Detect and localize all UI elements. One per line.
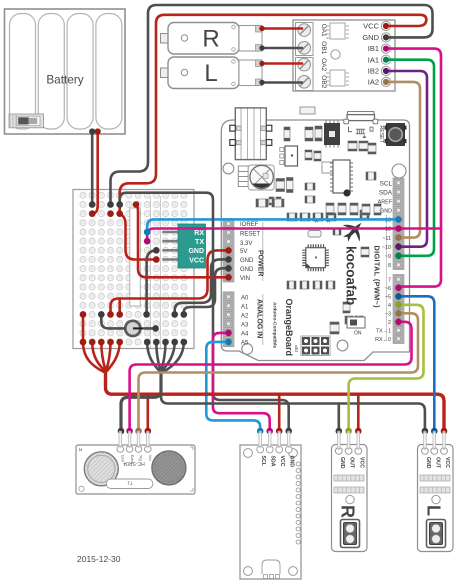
small SMD parts top xyxy=(284,107,376,154)
driver pin IA2 xyxy=(381,77,390,86)
svg-text:GND: GND xyxy=(380,208,392,214)
svg-text:R: R xyxy=(338,505,358,518)
ON switch xyxy=(347,317,365,328)
svg-text:HC-SR04: HC-SR04 xyxy=(123,460,145,466)
lime wire junction dots xyxy=(345,302,402,435)
flash IC U5 xyxy=(324,123,340,145)
wire blue OUT L (pin5 to sensorL) xyxy=(399,296,435,431)
mounting hole xyxy=(331,50,340,59)
power switch SW1 xyxy=(9,114,44,128)
wire long gray (breadboard to gyro GND) xyxy=(120,193,289,431)
driver IC1 xyxy=(326,23,349,39)
svg-text:T1: T1 xyxy=(127,481,133,486)
svg-text:POWER: POWER xyxy=(257,250,264,276)
wire VIN red (arduino VIN to breadboard) xyxy=(136,205,228,277)
red wire junction dots xyxy=(80,23,448,434)
svg-text:VCC: VCC xyxy=(444,457,450,468)
big electrolytic cap C2 xyxy=(248,165,274,190)
wire gray fan (breadboard to GND bus) xyxy=(147,342,159,371)
driver pin GND xyxy=(381,33,390,42)
svg-text:TX→1: TX→1 xyxy=(376,329,391,335)
svg-text:ON: ON xyxy=(354,331,362,337)
wire red fan (breadboard to VCC bus) xyxy=(82,314,85,342)
wire magenta Echo (pin2 to sonar) xyxy=(130,322,412,431)
IR sensor L xyxy=(418,445,454,552)
wire BT GND gray (breadboard to lower row) xyxy=(147,250,157,314)
driver pin VCC xyxy=(381,21,390,30)
svg-text:VCC: VCC xyxy=(363,22,379,31)
svg-text:GND: GND xyxy=(188,248,204,255)
wire VCC rail red (driver VCC to breadboard) xyxy=(120,15,427,214)
svg-text:~5: ~5 xyxy=(385,295,391,301)
svg-text:VCC: VCC xyxy=(279,456,285,467)
wire GND1 gray (arduino GND to breadboard) xyxy=(175,259,229,314)
svg-text:~6: ~6 xyxy=(385,286,391,292)
svg-text:OUT: OUT xyxy=(434,457,440,469)
svg-text:Battery: Battery xyxy=(46,73,83,87)
svg-text:GND: GND xyxy=(362,33,379,42)
svg-text:IA1: IA1 xyxy=(368,55,379,64)
svg-text:TX: TX xyxy=(195,239,204,246)
right header lower xyxy=(393,275,404,344)
breadboard (perfboard) xyxy=(73,190,194,349)
deep blue wire junction dots xyxy=(395,293,437,434)
electrolytic cap C1 (round component on breadboard) xyxy=(125,321,144,336)
right header upper xyxy=(393,178,404,270)
crystal Y1 xyxy=(322,162,333,173)
wire BT RX blue (pin13 to breadboard) xyxy=(147,219,398,232)
svg-text:GND: GND xyxy=(425,457,431,469)
bluetooth module U4 xyxy=(164,224,206,268)
wire red drop sensorR VCC xyxy=(357,394,360,431)
svg-text:IB1: IB1 xyxy=(368,44,379,53)
svg-text:OA1: OA1 xyxy=(320,24,327,37)
left header POWER xyxy=(223,219,234,283)
wire buzzer left gray xyxy=(101,314,125,328)
motor R xyxy=(161,23,263,55)
wire IA2 brown (driver to pin11) xyxy=(386,82,420,238)
gray wire junction dots xyxy=(89,34,428,434)
svg-text:OrangeBoard: OrangeBoard xyxy=(284,299,294,357)
wire motor L + red xyxy=(262,62,302,65)
svg-text:GND: GND xyxy=(339,457,345,469)
svg-text:VCC: VCC xyxy=(189,257,204,264)
wire gray GND bus to sonar xyxy=(121,368,161,431)
svg-text:L: L xyxy=(424,505,444,516)
wire buzzer right gray xyxy=(145,327,154,330)
svg-text:SDA: SDA xyxy=(270,456,276,467)
svg-text:GND: GND xyxy=(289,456,295,468)
magenta wire junction dots xyxy=(126,46,402,435)
smd caps row above bird xyxy=(326,203,381,215)
svg-text:RX←0: RX←0 xyxy=(375,337,391,343)
svg-text:RESET: RESET xyxy=(378,126,384,144)
svg-text:GND: GND xyxy=(240,267,254,273)
svg-text:2: 2 xyxy=(388,320,391,326)
svg-text:4: 4 xyxy=(388,303,391,309)
mounting holes xyxy=(242,344,253,355)
wire red drop gyro VCC xyxy=(278,394,281,431)
IR sensor R xyxy=(332,445,368,552)
svg-text:SDA: SDA xyxy=(379,190,393,197)
wire battery GND gray xyxy=(91,132,94,205)
svg-text:OB1: OB1 xyxy=(320,41,327,54)
battery holder BT1 xyxy=(5,9,126,134)
svg-text:A3: A3 xyxy=(241,323,249,329)
MCU U8 xyxy=(302,244,329,271)
terminal block OA2/OB2 xyxy=(296,58,314,91)
svg-text:IA2: IA2 xyxy=(368,78,379,87)
wire red VCC bus to modules xyxy=(106,368,445,431)
wire end dots xyxy=(80,23,448,434)
right pin labels xyxy=(379,181,393,197)
svg-text:~10: ~10 xyxy=(382,245,391,251)
svg-text:A4: A4 xyxy=(241,332,249,338)
small ICs near regulator xyxy=(269,178,293,206)
svg-text:SCL: SCL xyxy=(260,456,266,467)
svg-text:A0: A0 xyxy=(241,296,249,302)
svg-text:ANALOG IN: ANALOG IN xyxy=(256,299,263,338)
Arduino OrangeBoard xyxy=(221,107,409,361)
wire 5V red (arduino 5V to breadboard) xyxy=(111,250,229,314)
svg-text:3.3V: 3.3V xyxy=(240,241,252,247)
voltage regulator U6 xyxy=(280,146,298,166)
brown wire junction dots xyxy=(135,79,402,435)
svg-text:IOREF: IOREF xyxy=(240,222,259,228)
svg-text:OUT: OUT xyxy=(349,457,355,469)
motor driver board U3 xyxy=(293,20,395,91)
svg-text:2015-12-30: 2015-12-30 xyxy=(77,554,121,564)
wire gray drop sensorR GND xyxy=(337,404,340,432)
purple wire junction dots xyxy=(383,68,402,250)
svg-text:AREF: AREF xyxy=(378,199,393,205)
svg-text:RESET: RESET xyxy=(240,232,260,238)
wire lime OUT R (pin4 to sensorR) xyxy=(349,305,424,431)
svg-text:A2: A2 xyxy=(241,314,249,320)
USB connector J2 xyxy=(344,112,378,138)
power jack J1 xyxy=(230,108,272,160)
terminal block OA1/OB1 xyxy=(296,23,314,56)
reset button SW2 xyxy=(378,124,407,146)
slot cutout xyxy=(130,208,141,306)
svg-text:IB2: IB2 xyxy=(368,67,379,76)
gyro module U9 xyxy=(240,445,301,579)
wire IA1 green (driver to pin9) xyxy=(386,60,434,256)
svg-text:Vcc: Vcc xyxy=(148,455,152,461)
svg-text:RX: RX xyxy=(194,230,204,237)
side cap C3 xyxy=(238,166,248,187)
svg-text:kocoafab: kocoafab xyxy=(344,246,359,305)
svg-text:8: 8 xyxy=(388,263,391,269)
ISP header xyxy=(294,336,330,356)
driver pin IB2 xyxy=(381,66,390,75)
wire BT VCC red (breadboard jumper) xyxy=(120,214,157,260)
svg-text:DIGITAL (PWM~): DIGITAL (PWM~) xyxy=(373,246,382,309)
svg-text:A1: A1 xyxy=(241,305,249,311)
svg-text:OA2: OA2 xyxy=(320,58,327,71)
wire motor L - gray xyxy=(262,81,302,84)
svg-text:VIN: VIN xyxy=(240,276,250,282)
svg-text:A5: A5 xyxy=(241,341,249,347)
USB-serial IC U7 xyxy=(330,160,353,197)
svg-text:5V: 5V xyxy=(240,249,247,255)
wire motor R + red xyxy=(262,27,302,30)
wire motor R - gray xyxy=(262,47,302,50)
wire GND rail gray (driver GND to breadboard) xyxy=(111,5,433,205)
green wire junction dots xyxy=(383,57,402,260)
driver pin IA1 xyxy=(381,55,390,64)
wire A5 SCL blue (A5 to gyro SCL) xyxy=(206,342,260,431)
svg-text:R: R xyxy=(202,26,219,53)
wire GND2 gray (arduino GND to breadboard) xyxy=(184,268,229,314)
wire IB1 magenta (driver to pin12/~6) xyxy=(386,49,441,288)
wire red drop sonar VCC xyxy=(147,394,150,431)
wire BT TX magenta (pin12 to breadboard) xyxy=(147,229,441,242)
smd caps mid xyxy=(256,150,376,334)
wire battery VCC red xyxy=(93,132,98,214)
left pin labels xyxy=(262,222,264,281)
wire IB2 purple (driver to pin10) xyxy=(386,71,427,247)
wire gray GND bus to sensors xyxy=(161,390,425,431)
svg-text:~3: ~3 xyxy=(385,312,391,318)
motor L xyxy=(161,57,263,89)
driver pin IB1 xyxy=(381,44,390,53)
wire tan Trig (pin3 to sonar) xyxy=(139,313,419,431)
kocoafab bird logo xyxy=(337,215,370,248)
svg-text:SCL: SCL xyxy=(380,181,393,188)
svg-text:VCC: VCC xyxy=(358,457,364,468)
svg-text:7: 7 xyxy=(388,278,391,284)
driver IC2 xyxy=(326,70,349,86)
azure wire junction dots xyxy=(144,216,402,434)
module pin leads xyxy=(120,433,444,449)
wire 5V branch red xyxy=(118,299,121,315)
wire A4 SDA magenta (A4 to gyro SDA) xyxy=(213,333,270,431)
svg-text:OB2: OB2 xyxy=(320,75,327,88)
svg-text:~9: ~9 xyxy=(385,254,391,260)
svg-text:L: L xyxy=(204,60,217,87)
left header ANALOG xyxy=(223,292,234,347)
svg-text:Arduino-Compatible: Arduino-Compatible xyxy=(272,302,278,348)
svg-text:~11: ~11 xyxy=(382,236,391,242)
sonar HC-SR04 xyxy=(76,445,195,494)
svg-text:GND: GND xyxy=(240,258,254,264)
